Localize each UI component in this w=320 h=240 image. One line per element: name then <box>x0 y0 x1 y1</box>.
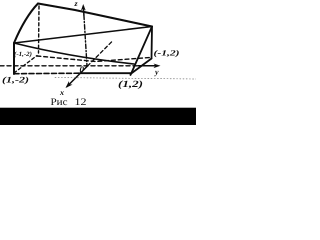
wire top diagonal L-B <box>14 27 152 44</box>
axis y dashed part <box>0 65 140 67</box>
axis z dash-dot <box>84 15 87 66</box>
wire left edge A-L <box>14 4 38 44</box>
wire bottom right edge C-RR <box>131 59 152 75</box>
axis z solid top <box>82 7 85 16</box>
svg-text:0: 0 <box>79 65 84 75</box>
svg-text:(1,-2): (1,-2) <box>2 75 29 85</box>
arrowhead y <box>154 64 161 69</box>
axis y solid part <box>138 65 157 67</box>
wire right steep edge B-C <box>131 27 153 76</box>
wire front top edge L-C <box>14 43 134 64</box>
wire top rear edge A-B <box>38 4 152 27</box>
arrowhead z <box>81 4 86 11</box>
wire left vertical L-FL <box>13 43 15 74</box>
wire bottom front edge FL-C dashed left part <box>14 72 80 75</box>
axis x hidden extension <box>88 42 113 67</box>
svg-text:(1,2): (1,2) <box>118 79 143 90</box>
wire bottom front edge FL-C solid right part <box>80 72 131 74</box>
svg-text:(-1,-2): (-1,-2) <box>14 51 32 58</box>
wire faint dotted scan line <box>55 78 196 80</box>
arrowhead x <box>66 81 73 88</box>
svg-text:x: x <box>59 88 64 97</box>
wire hidden rear bottom edge RL-RR <box>37 56 150 62</box>
svg-text:y: y <box>154 67 159 76</box>
wire hidden edge FL-RL <box>14 56 37 74</box>
wire hidden vertical below A <box>38 6 41 53</box>
svg-text:12: 12 <box>74 97 86 108</box>
svg-text:Рис: Рис <box>50 97 68 108</box>
wire right vertical B-RR <box>151 27 154 59</box>
axis x <box>67 66 88 87</box>
black bar bottom <box>0 108 196 125</box>
svg-text:(-1,2): (-1,2) <box>153 49 179 58</box>
